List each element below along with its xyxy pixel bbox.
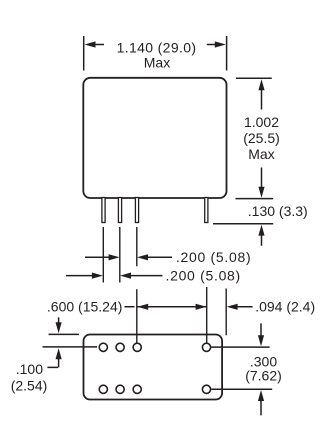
svg-text:.100: .100 [16,361,43,377]
svg-text:Max: Max [248,146,274,162]
svg-text:.094 (2.4): .094 (2.4) [255,299,315,315]
svg-text:1.140 (29.0): 1.140 (29.0) [117,39,197,55]
svg-text:.600 (15.24): .600 (15.24) [47,299,123,315]
svg-text:1.002: 1.002 [244,114,279,130]
svg-text:Max: Max [144,55,170,71]
svg-text:.200 (5.08): .200 (5.08) [176,249,251,265]
svg-text:(7.62): (7.62) [245,367,282,383]
svg-text:.200 (5.08): .200 (5.08) [166,268,241,284]
svg-text:(2.54): (2.54) [11,378,48,394]
svg-text:(25.5): (25.5) [243,130,280,146]
svg-text:.130 (3.3): .130 (3.3) [248,203,308,219]
